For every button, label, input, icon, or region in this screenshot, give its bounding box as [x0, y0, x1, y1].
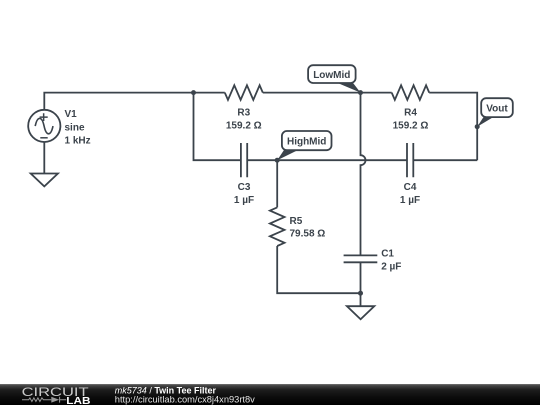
- svg-text:http://circuitlab.com/cx8j4xn9: http://circuitlab.com/cx8j4xn93rt8v: [115, 394, 255, 404]
- resistor R5: [270, 207, 285, 246]
- wire C4 to right corner: [413, 159, 477, 161]
- flag HighMid: [275, 131, 332, 163]
- node A junction: [191, 90, 196, 95]
- svg-text:C1: C1: [381, 249, 394, 260]
- wire R3 to R4: [263, 92, 392, 94]
- ground node junction: [358, 291, 363, 296]
- svg-text:159.2 Ω: 159.2 Ω: [393, 121, 429, 132]
- flag Vout: [475, 98, 513, 129]
- source V1 circle: [28, 110, 60, 142]
- logo zigzag and diode: [22, 397, 66, 403]
- svg-text:V1: V1: [65, 109, 78, 120]
- svg-text:C3: C3: [238, 182, 251, 193]
- flag LowMid: [308, 65, 363, 95]
- svg-text:2 µF: 2 µF: [381, 262, 401, 273]
- svg-text:R4: R4: [404, 108, 417, 119]
- wire R4 to top-right corner down to Vout row: [429, 93, 477, 161]
- wire node A down: [194, 93, 241, 161]
- wire top from V1 to R3: [44, 93, 225, 110]
- svg-text:R5: R5: [290, 216, 303, 227]
- V1 plus sign: [40, 113, 48, 121]
- resistor R3: [225, 85, 263, 100]
- capacitor C3: [241, 143, 247, 177]
- logo diode triangle: [51, 397, 59, 403]
- svg-text:LAB: LAB: [66, 396, 90, 405]
- wire R5 bottom to ground node: [277, 246, 360, 293]
- V1 sine glyph: [35, 118, 53, 133]
- svg-text:sine: sine: [65, 122, 85, 133]
- svg-text:C4: C4: [404, 182, 417, 193]
- capacitor C4: [407, 143, 413, 177]
- V1 minus sign: [40, 137, 47, 139]
- wire V1 to ground: [43, 142, 45, 174]
- svg-text:1 kHz: 1 kHz: [65, 136, 91, 147]
- resistor R4: [392, 85, 430, 100]
- wire C3 to C4: [247, 159, 407, 161]
- svg-text:Vout: Vout: [486, 104, 508, 115]
- svg-text:R3: R3: [237, 108, 250, 119]
- svg-text:HighMid: HighMid: [287, 137, 326, 148]
- ground under V1: [31, 174, 58, 187]
- wire LowMid down with hop over middle row: [361, 93, 366, 256]
- ground under C1: [347, 306, 374, 319]
- svg-text:LowMid: LowMid: [313, 70, 350, 81]
- capacitor C1: [344, 255, 378, 262]
- svg-text:1 µF: 1 µF: [400, 195, 420, 206]
- wire C1 bottom to ground: [360, 262, 362, 306]
- svg-text:79.58 Ω: 79.58 Ω: [290, 229, 326, 240]
- svg-text:1 µF: 1 µF: [234, 195, 254, 206]
- wire HighMid down to R5: [276, 160, 278, 207]
- svg-text:159.2 Ω: 159.2 Ω: [226, 121, 262, 132]
